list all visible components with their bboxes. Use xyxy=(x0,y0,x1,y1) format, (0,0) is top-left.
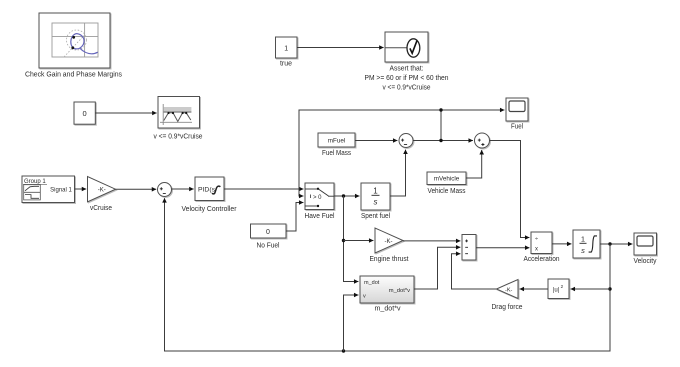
wire divide to integrator xyxy=(552,243,571,245)
svg-text:Engine thrust: Engine thrust xyxy=(370,256,409,263)
junction fuel net xyxy=(439,139,442,142)
wire v tap to m_dot*v xyxy=(344,295,359,351)
svg-text:Velocity: Velocity xyxy=(634,258,657,265)
svg-text:s: s xyxy=(374,198,378,207)
wire engine thrust to sum3 xyxy=(403,240,460,242)
svg-text:Have Fuel: Have Fuel xyxy=(305,213,335,220)
block Signal Builder Group 1 xyxy=(22,176,75,203)
wire switch out to Spent fuel xyxy=(334,195,359,197)
integrator velocity (limited) xyxy=(573,230,600,258)
constant mFuel xyxy=(318,133,355,147)
svg-text:v: v xyxy=(363,294,366,300)
svg-text:m_dot*v: m_dot*v xyxy=(375,306,401,313)
block Check Gain and Phase Margins xyxy=(39,13,110,68)
svg-text:Acceleration: Acceleration xyxy=(524,256,560,263)
svg-text:Fuel Mass: Fuel Mass xyxy=(322,150,351,157)
svg-text:x: x xyxy=(535,247,538,253)
svg-text:mVehicle: mVehicle xyxy=(434,176,460,183)
svg-text:Check Gain and Phase Margins: Check Gain and Phase Margins xyxy=(25,72,122,79)
wire mass sum to divide xyxy=(490,141,530,238)
svg-text:-K-: -K- xyxy=(505,287,513,293)
block |u|^2 xyxy=(548,279,569,299)
sum (velocity error) xyxy=(158,183,172,197)
wire mFuel to fuel sum xyxy=(355,140,397,142)
wire fuel remaining to switch control xyxy=(299,110,441,196)
junction fuel top xyxy=(439,108,442,111)
sum force (rect) xyxy=(462,235,476,261)
svg-text:1: 1 xyxy=(373,187,378,196)
subsystem m_dot*v xyxy=(360,276,414,303)
block integrator Spent fuel xyxy=(361,183,390,210)
wire fuel remaining to Fuel scope xyxy=(441,109,504,111)
divide Acceleration xyxy=(531,232,552,254)
junction switch out xyxy=(342,194,345,197)
wire PID to switch port1 xyxy=(224,188,303,190)
scope Velocity xyxy=(634,233,657,255)
wire mVehicle to mass sum xyxy=(466,150,482,178)
svg-text:-K-: -K- xyxy=(98,188,106,194)
wire to engine thrust xyxy=(344,240,374,242)
wire velocity to u2 xyxy=(571,288,610,290)
svg-text:Assert that:: Assert that: xyxy=(390,66,424,73)
svg-text:Vehicle Mass: Vehicle Mass xyxy=(428,188,466,195)
gain Engine thrust xyxy=(375,228,403,253)
svg-text:No Fuel: No Fuel xyxy=(257,243,280,250)
wire integrator to Velocity scope xyxy=(600,243,632,245)
gain Drag force xyxy=(497,280,519,299)
svg-text:1: 1 xyxy=(284,45,288,52)
wire sum to PID xyxy=(172,188,194,190)
block switch Have Fuel xyxy=(305,183,334,210)
junction velocity xyxy=(608,242,611,245)
block check v <= 0.9*vCruise xyxy=(158,97,200,129)
wire true to assert xyxy=(297,47,384,49)
wire drag force to sum force xyxy=(452,254,497,289)
scope Fuel xyxy=(506,98,528,121)
svg-text:0: 0 xyxy=(266,229,270,236)
svg-text:PID(s: PID(s xyxy=(198,187,216,194)
wire fuel sum to mass sum xyxy=(413,140,473,142)
constant 0 (upper) xyxy=(74,102,95,124)
svg-text:m_dot*v: m_dot*v xyxy=(389,288,410,294)
svg-text:÷: ÷ xyxy=(535,236,538,242)
sum fuel xyxy=(399,134,413,148)
svg-text:v <= 0.9*vCruise: v <= 0.9*vCruise xyxy=(154,134,203,141)
svg-text:PM >= 60 or if PM < 60 then: PM >= 60 or if PM < 60 then xyxy=(365,75,449,82)
svg-text:Spent fuel: Spent fuel xyxy=(361,213,390,220)
block PID Velocity Controller xyxy=(195,177,224,201)
block Assert xyxy=(385,32,428,62)
wire m_dot*v to sum force xyxy=(414,247,460,289)
svg-text:v <= 0.9*vCruise: v <= 0.9*vCruise xyxy=(383,85,431,92)
wire sum force to divide xyxy=(476,247,529,249)
svg-text:s: s xyxy=(581,246,585,255)
wire gain to sum xyxy=(116,188,157,190)
wire velocity feedback main xyxy=(165,198,611,351)
wire signal builder to gain xyxy=(75,188,87,190)
svg-text:> 0: > 0 xyxy=(313,195,322,201)
svg-text:vCruise: vCruise xyxy=(90,205,112,212)
junction bottom v tap xyxy=(342,349,345,352)
svg-text:Drag force: Drag force xyxy=(492,304,523,311)
constant mVehicle xyxy=(427,172,466,185)
svg-text:Fuel: Fuel xyxy=(511,124,523,131)
svg-text:mFuel: mFuel xyxy=(328,138,346,145)
svg-text:m_dot: m_dot xyxy=(364,280,380,286)
constant 1 true xyxy=(276,37,298,58)
wire u2 to drag gain xyxy=(520,288,548,290)
wire 0 to check bound xyxy=(95,112,156,114)
svg-text:|u|: |u| xyxy=(553,288,560,294)
junction engine tap xyxy=(342,239,345,242)
svg-text:0: 0 xyxy=(83,109,87,118)
svg-text:-K-: -K- xyxy=(385,239,393,245)
constant 0 No Fuel xyxy=(251,224,287,238)
svg-text:Velocity Controller: Velocity Controller xyxy=(182,206,238,213)
gain vCruise xyxy=(88,177,116,202)
sum mass xyxy=(475,133,490,148)
svg-text:true: true xyxy=(280,61,292,68)
svg-text:Signal 1: Signal 1 xyxy=(50,188,72,194)
wire switch out down to m_dot xyxy=(344,196,359,282)
wire No Fuel to switch port3 xyxy=(286,203,303,232)
svg-text:1: 1 xyxy=(581,235,585,244)
junction velocity to u2 xyxy=(608,287,611,290)
wire Spent fuel to fuel sum xyxy=(390,150,406,196)
